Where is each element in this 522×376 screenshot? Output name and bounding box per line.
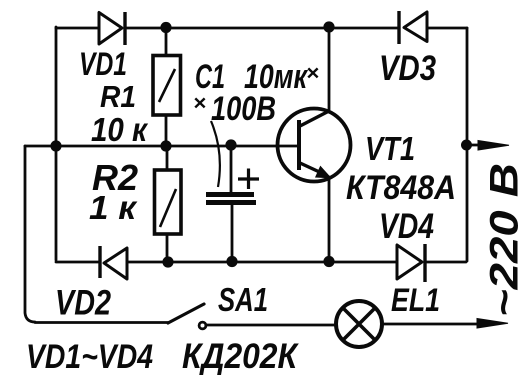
transistor VT1 bbox=[278, 109, 351, 182]
node junction dot top collector bbox=[323, 21, 334, 32]
svg-text:EL1: EL1 bbox=[391, 282, 440, 318]
wire C1 top lead bbox=[230, 145, 233, 192]
node junction dot left bus / base row bbox=[50, 140, 61, 151]
node junction dot C1 top bbox=[225, 139, 236, 150]
svg-text:КД202К: КД202К bbox=[182, 337, 299, 376]
wire collector lead bbox=[328, 27, 331, 111]
wire R2 top lead bbox=[166, 146, 169, 170]
svg-text:×: × bbox=[306, 62, 319, 85]
svg-text:100В: 100В bbox=[211, 90, 276, 128]
output arrow bottom (to 220V) bbox=[477, 319, 508, 329]
wire switch to lamp bbox=[206, 324, 336, 327]
wire lamp to output arrow bbox=[382, 323, 480, 326]
node junction dot R1/R2 bbox=[160, 140, 171, 151]
svg-text:VD3: VD3 bbox=[379, 49, 436, 88]
node junction dot C1 bottom bbox=[226, 256, 237, 267]
diode VD4 bbox=[397, 244, 425, 282]
lamp EL1 bbox=[336, 301, 382, 347]
svg-text:VT1: VT1 bbox=[365, 130, 415, 167]
resistor R1 bbox=[153, 56, 181, 116]
wire middle horizontal (base row) bbox=[56, 145, 299, 148]
wire R1 bottom lead bbox=[165, 115, 168, 146]
wire output arrow stub top bbox=[467, 144, 480, 147]
svg-text:SA1: SA1 bbox=[218, 281, 268, 318]
svg-text:~220 В: ~220 В bbox=[483, 163, 522, 317]
leader line from C1 label to capacitor bbox=[211, 121, 220, 187]
wire outer loop left vertical bbox=[25, 146, 35, 322]
wire left vertical bus bbox=[55, 27, 58, 260]
svg-text:КТ848А: КТ848А bbox=[346, 169, 456, 207]
svg-text:10 к: 10 к bbox=[91, 111, 149, 148]
wire C1 bottom lead bbox=[231, 204, 234, 261]
svg-text:VD1: VD1 bbox=[79, 46, 127, 82]
switch SA1 bbox=[168, 304, 206, 329]
svg-text:×: × bbox=[193, 92, 206, 115]
output arrow top (to 220V) bbox=[478, 141, 509, 151]
node junction dot R2 bottom bbox=[162, 256, 173, 267]
wire top bus middle segment bbox=[125, 27, 399, 30]
wire bottom bus right segment bbox=[425, 261, 466, 264]
wire bottom bus middle segment bbox=[127, 261, 397, 264]
svg-text:VD2: VD2 bbox=[55, 284, 111, 323]
wire top bus right segment bbox=[427, 27, 467, 30]
wire bottom bus left segment bbox=[56, 261, 100, 264]
diode VD1 bbox=[99, 12, 125, 45]
wire outer loop bottom to switch bbox=[35, 321, 168, 324]
svg-text:R1: R1 bbox=[100, 79, 136, 114]
diode VD3 bbox=[399, 11, 427, 44]
node junction dot top R1 bbox=[160, 22, 171, 33]
node junction dot emitter bbox=[323, 256, 334, 267]
capacitor C1 bbox=[206, 169, 259, 203]
wire emitter lead bbox=[328, 177, 331, 261]
node junction dot right bus output bbox=[461, 140, 472, 151]
svg-text:1 к: 1 к bbox=[89, 189, 138, 226]
wire top bus left segment bbox=[56, 27, 99, 30]
resistor R2 bbox=[155, 170, 182, 234]
svg-text:VD1~VD4: VD1~VD4 bbox=[26, 338, 153, 376]
diode VD2 bbox=[100, 246, 127, 279]
wire R2 bottom lead bbox=[166, 234, 169, 262]
wire R1 top lead bbox=[165, 28, 168, 55]
wire right vertical bus bbox=[466, 28, 469, 261]
svg-text:VD4: VD4 bbox=[379, 207, 434, 246]
wire outer loop left stub bbox=[25, 145, 56, 148]
